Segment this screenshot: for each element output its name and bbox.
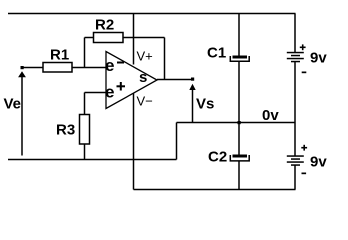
Ve arrow head	[18, 71, 26, 77]
node C2/0v junction dot	[238, 121, 241, 124]
resistor R3	[56, 115, 90, 145]
wire R2 left horizontal	[85, 37, 94, 39]
svg-text:9v: 9v	[310, 154, 327, 171]
node input junction dot	[21, 66, 24, 69]
wire V- drop from op-amp to bottom rail	[133, 94, 135, 190]
wire input node to R1	[22, 67, 43, 69]
battery B2 (bottom 9v) plates	[287, 155, 304, 166]
battery B2 plus sign	[301, 145, 307, 151]
wire battery chain upper segment	[294, 14, 296, 53]
wire battery chain lower segment	[294, 165, 296, 190]
Vs arrow head	[189, 84, 195, 90]
svg-text:0v: 0v	[262, 107, 279, 124]
svg-text:C2: C2	[208, 149, 227, 166]
wire C2 top from 0v rail	[238, 123, 240, 155]
wire C1 bottom to 0v rail	[238, 62, 240, 123]
svg-text:R2: R2	[95, 17, 114, 34]
svg-text:C1: C1	[207, 45, 226, 62]
wire Ve arrow shaft	[21, 77, 23, 156]
wire R2 left vertical to e- node	[84, 38, 86, 68]
wire R3 bottom to ground rail	[84, 144, 86, 160]
battery B1 (top 9v) plates	[287, 52, 304, 63]
wire jog between rails	[176, 123, 178, 160]
wire C2 bottom to bottom rail	[238, 162, 240, 190]
svg-text:9v: 9v	[310, 50, 327, 67]
capacitor C1	[207, 45, 249, 62]
battery B1 plus sign	[300, 44, 306, 50]
wire e+ input horizontal	[85, 92, 107, 94]
wire battery chain middle segment	[294, 62, 296, 156]
svg-text:R3: R3	[56, 122, 75, 139]
op-amp U1 triangle	[106, 52, 157, 109]
wire e+ node down to R3	[84, 93, 86, 115]
wire Vs arrow shaft	[192, 89, 194, 123]
capacitor C2	[208, 149, 249, 166]
wire left ground rail	[8, 159, 177, 161]
svg-text:Ve: Ve	[4, 96, 22, 113]
svg-text:e: e	[105, 56, 114, 75]
wire top supply rail	[8, 13, 296, 15]
battery B1 minus sign	[302, 72, 307, 74]
battery B2 minus sign	[302, 173, 307, 175]
op-amp pin label e-	[105, 56, 124, 75]
resistor R1	[43, 47, 72, 73]
svg-text:V+: V+	[137, 49, 153, 64]
wire R2 right vertical to output	[164, 38, 166, 80]
resistor R2	[94, 17, 124, 43]
wire 0v rail	[177, 122, 296, 124]
op-amp pin label e+	[105, 82, 125, 102]
wire C1 top	[238, 14, 240, 56]
svg-text:e: e	[105, 83, 114, 102]
wire V+ supply drop to op-amp	[133, 14, 135, 65]
node output junction dot	[191, 78, 194, 81]
wire op-amp output	[157, 79, 193, 81]
wire R2 right horizontal	[123, 37, 165, 39]
svg-text:Vs: Vs	[196, 96, 214, 113]
wire R1 to e- input	[72, 67, 106, 69]
svg-text:V−: V−	[137, 94, 153, 109]
wire bottom rail	[134, 189, 296, 191]
svg-text:s: s	[139, 69, 147, 86]
svg-text:R1: R1	[50, 47, 69, 64]
